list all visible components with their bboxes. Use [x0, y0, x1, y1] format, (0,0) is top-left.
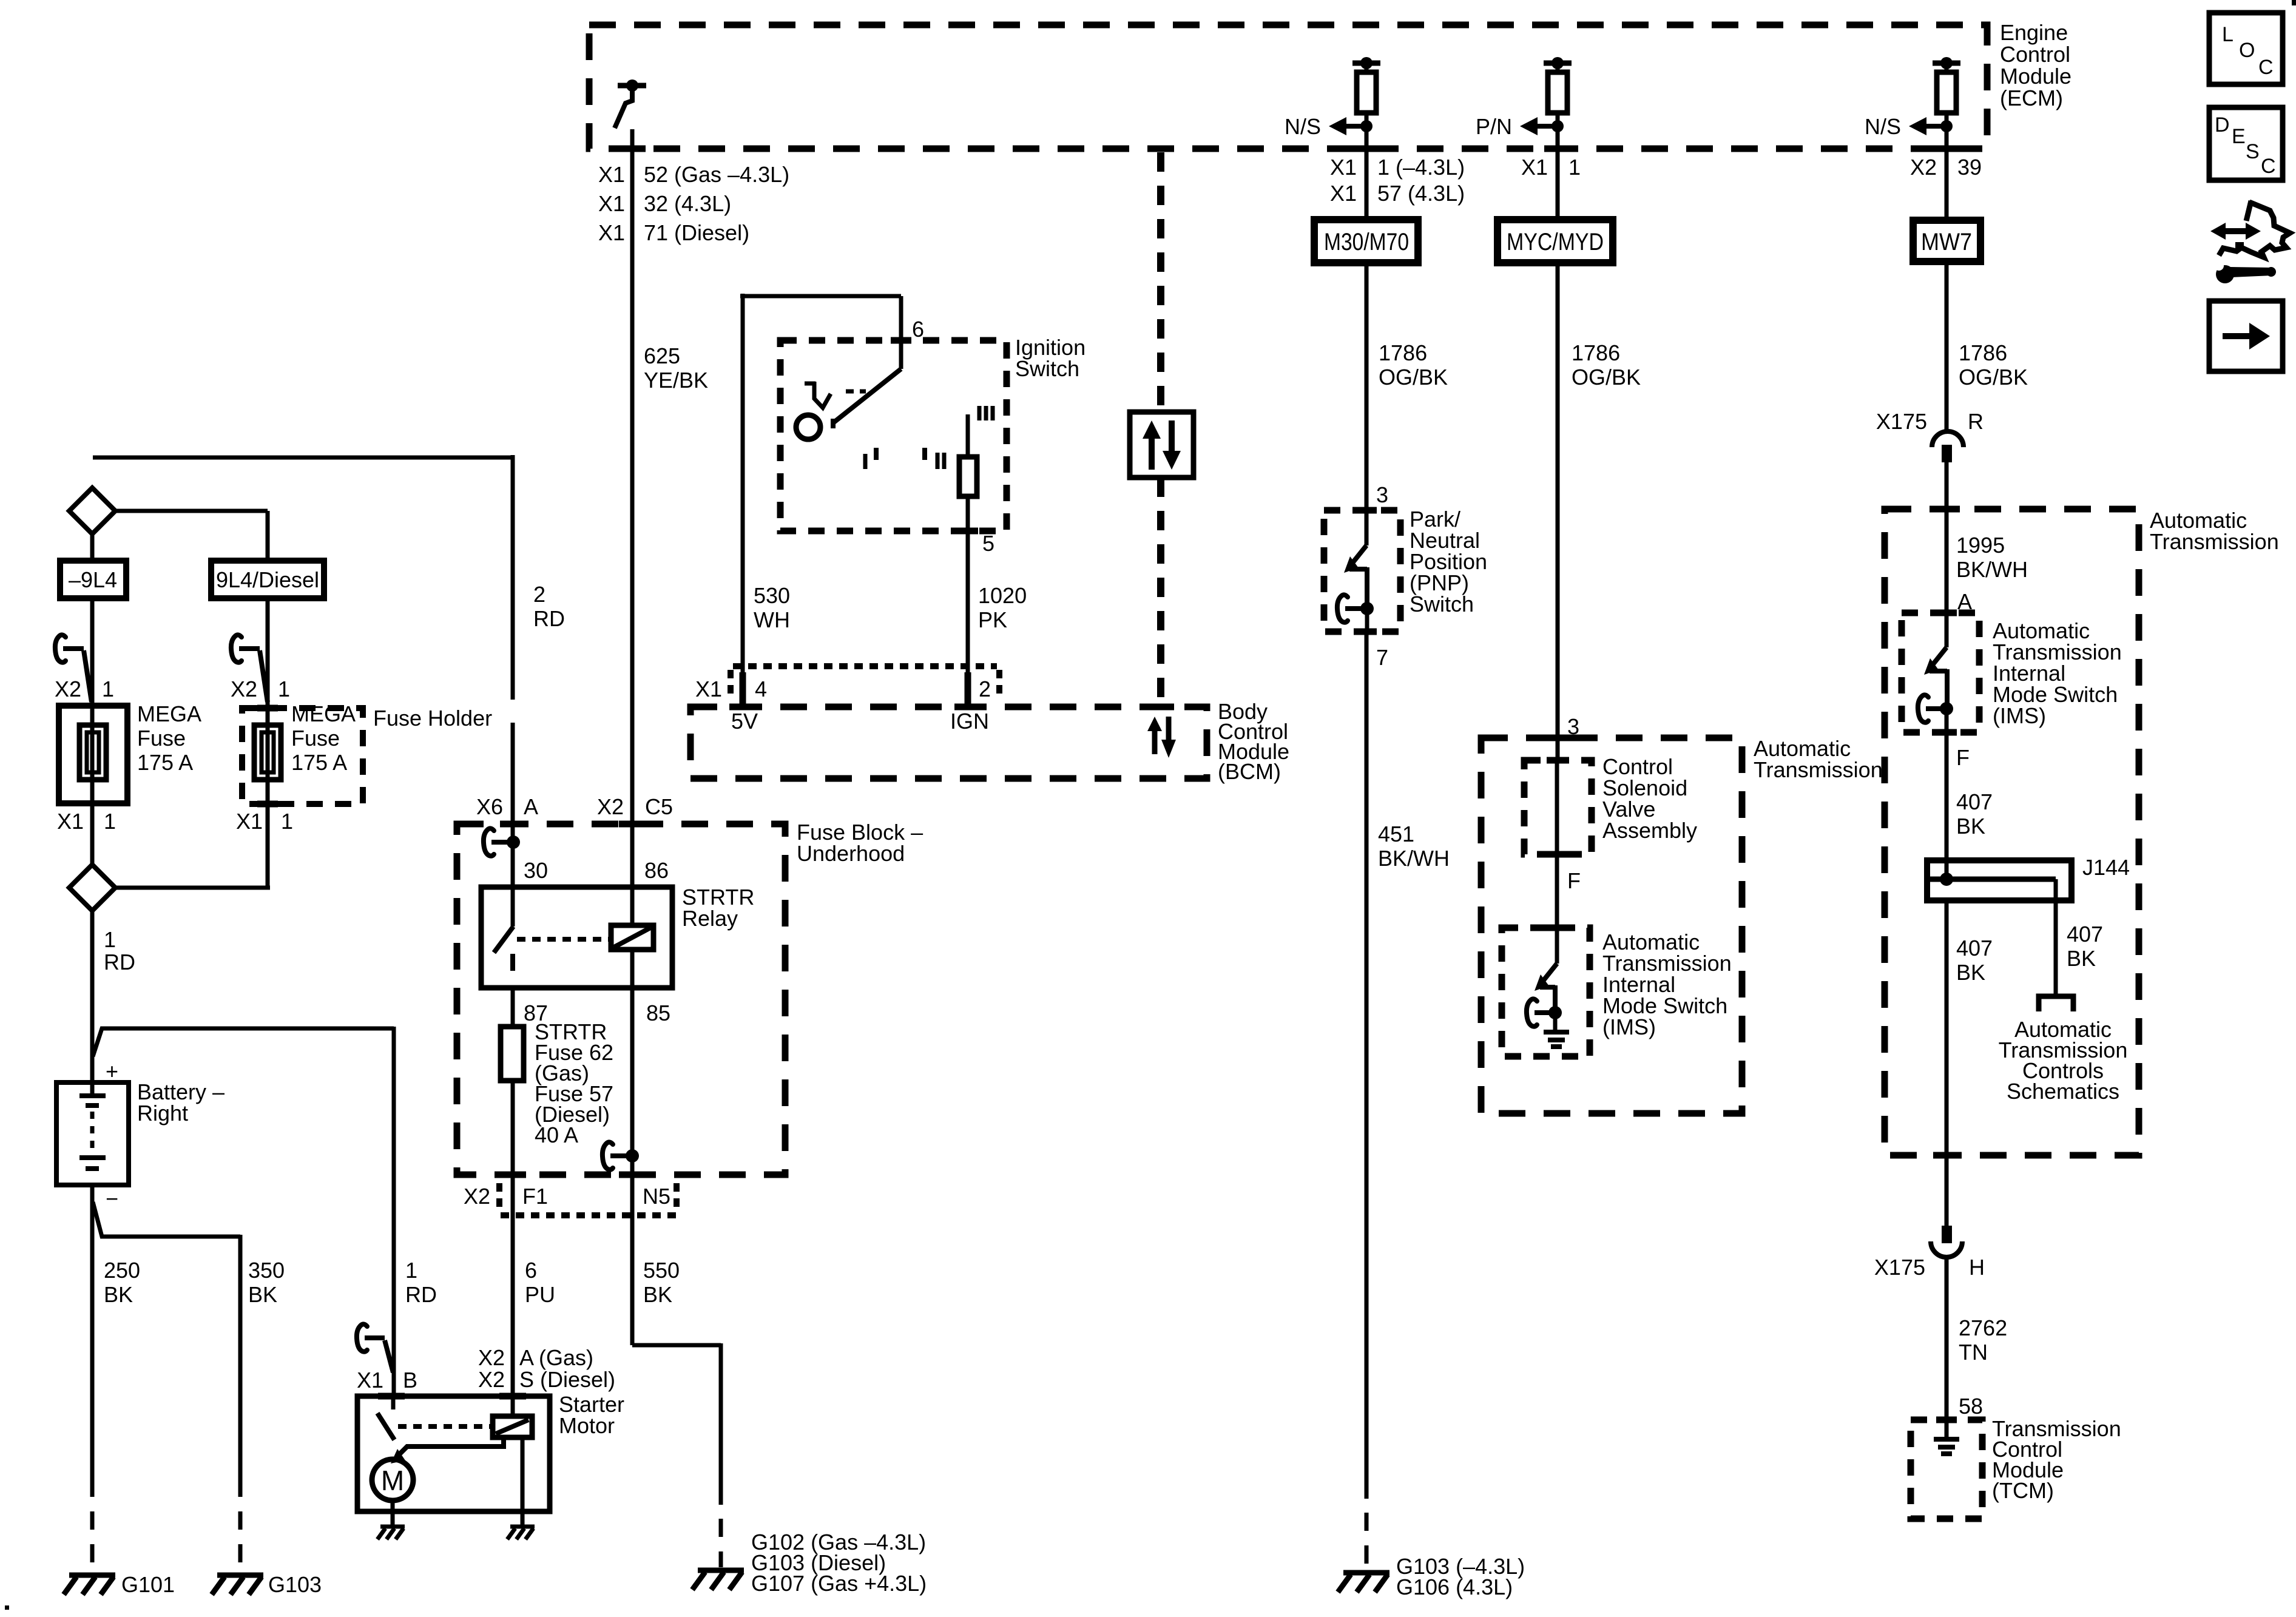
wire: -9L4 down through MEGA fuse to bottom diamond — [90, 598, 95, 865]
wire: into MYC/MYD — [1556, 149, 1560, 220]
svg-text:3: 3 — [1376, 482, 1388, 507]
splice pack J144 — [1927, 860, 2071, 900]
wire: battery feed top horizontal 2 RD — [93, 456, 513, 460]
wire: coil return to ground — [521, 1437, 525, 1525]
svg-text:BK: BK — [104, 1282, 133, 1307]
svg-text:175 A: 175 A — [137, 750, 193, 775]
wire: 2 RD vertical drop to fuse block (with drawn gap) — [511, 455, 515, 887]
wire: 1020 PK pin 5 down to BCM — [966, 496, 970, 707]
TCM dashed box Transmission Control Module — [1911, 1420, 1982, 1519]
svg-text:X1: X1 — [236, 809, 263, 834]
svg-text:Engine: Engine — [2000, 20, 2068, 45]
svg-text:530: 530 — [754, 583, 790, 608]
svg-text:Transmission: Transmission — [1754, 757, 1883, 782]
svg-text:Fuse: Fuse — [137, 726, 186, 751]
svg-text:X2: X2 — [597, 794, 624, 819]
svg-text:5V: 5V — [731, 709, 758, 734]
svg-text:9L4/Diesel: 9L4/Diesel — [216, 567, 319, 592]
svg-text:Switch: Switch — [1015, 356, 1079, 381]
ignition switch dashed box — [780, 340, 1007, 531]
svg-text:58: 58 — [1959, 1394, 1983, 1419]
svg-text:1020: 1020 — [978, 583, 1027, 608]
svg-text:X6: X6 — [476, 794, 503, 819]
svg-text:X2: X2 — [231, 677, 257, 701]
svg-text:BK: BK — [1956, 960, 1985, 985]
svg-text:RD: RD — [405, 1282, 437, 1307]
ignition internal resistor on START feed — [966, 414, 970, 457]
position mark I — [863, 454, 868, 469]
automatic transmission dashed box (middle) — [1481, 738, 1742, 1113]
edge crossing dashes at dashed-box borders — [619, 146, 1960, 152]
wire: J144 down through AT box — [1945, 900, 1949, 1226]
svg-text:BK/WH: BK/WH — [1956, 557, 2028, 582]
svg-text:BK: BK — [2067, 946, 2096, 971]
svg-text:−: − — [106, 1186, 118, 1211]
wire: PNP pin 7 down to ground — [1366, 609, 1367, 1499]
svg-text:(TCM): (TCM) — [1992, 1478, 2054, 1503]
svg-text:71 (Diesel): 71 (Diesel) — [644, 220, 749, 245]
svg-text:BK: BK — [643, 1282, 672, 1307]
wire: dashed link arrow box to BCM — [1157, 478, 1164, 707]
PNP switch dashed box — [1324, 510, 1400, 632]
wire: into MW7 — [1945, 149, 1949, 220]
wire: battery positive branch to starter 1 RD — [93, 1027, 394, 1396]
svg-text:86: 86 — [644, 858, 669, 883]
svg-text:RD: RD — [533, 606, 565, 631]
svg-text:TN: TN — [1959, 1340, 1988, 1365]
ECM driver resistor (MW7 output) — [1933, 61, 1960, 66]
svg-text:J144: J144 — [2082, 855, 2130, 880]
svg-text:–9L4: –9L4 — [69, 567, 117, 592]
earth ground (middle IMS) — [1544, 1032, 1569, 1047]
svg-text:X2: X2 — [478, 1345, 505, 1370]
MEGA fuse 175A left: housing — [59, 706, 127, 803]
svg-text:N/S: N/S — [1865, 114, 1901, 139]
svg-text:MEGA: MEGA — [291, 701, 356, 726]
P/N sense arrow (MYC/MYD) — [1551, 120, 1564, 132]
wire: X175 R into automatic transmission — [1945, 462, 1949, 647]
ground G103 — [212, 1575, 263, 1595]
wire: 350 BK dashed lead to G103 — [238, 1511, 243, 1573]
svg-text:7: 7 — [1376, 645, 1388, 670]
svg-text:X1: X1 — [357, 1368, 383, 1393]
ECM internal switch (starter enable) — [618, 83, 646, 89]
svg-text:X1: X1 — [1330, 181, 1357, 206]
svg-text:85: 85 — [646, 1001, 670, 1025]
position mark II — [922, 448, 927, 460]
in-line connector X175 pin H — [1942, 1226, 1952, 1243]
ECM dashed box Engine Control Module — [589, 25, 1987, 149]
fuse holder dashed box — [242, 708, 363, 804]
MEGA fuse 175A right: fuse element — [254, 725, 281, 780]
wire: battery negative down 250 BK — [90, 1185, 95, 1497]
wire: IMS to earth ground (middle) — [1553, 1013, 1558, 1030]
IMS dashed box (right) — [1902, 613, 1979, 732]
svg-text:30: 30 — [524, 858, 548, 883]
svg-text:350: 350 — [248, 1258, 285, 1283]
starter solenoid contact arm — [391, 1396, 396, 1409]
STRTR fuse element — [501, 1027, 524, 1081]
svg-text:550: 550 — [643, 1258, 680, 1283]
svg-text:Assembly: Assembly — [1602, 818, 1697, 843]
svg-text:Module: Module — [2000, 64, 2071, 89]
connector box -9L4 — [60, 561, 126, 598]
clip at PNP common — [1337, 595, 1348, 622]
svg-text:BK: BK — [248, 1282, 277, 1307]
svg-text:S: S — [2246, 140, 2260, 163]
icon LOC box — [2209, 13, 2283, 84]
svg-text:X2: X2 — [478, 1367, 505, 1392]
wire: diamond to 9L4/Diesel branch — [115, 511, 268, 561]
wire: IMS F down to J144 — [1945, 709, 1949, 879]
svg-text:A (Gas): A (Gas) — [519, 1345, 593, 1370]
off-page connector bracket — [2039, 996, 2073, 1011]
corner mark top right — [2292, 0, 2296, 5]
svg-text:X1: X1 — [1330, 155, 1357, 180]
IMS switch arm (middle) — [1542, 964, 1557, 982]
N/S sense arrow (M30/M70) — [1360, 120, 1373, 132]
wire: 1 RD diamond to battery — [90, 911, 95, 1096]
starter actuator dashed line — [398, 1424, 491, 1429]
wire stubs into BCM — [743, 672, 968, 705]
wire: dashed link ECM to BCM — [1157, 152, 1164, 412]
relay contact arm pin 30-87 — [511, 887, 515, 927]
svg-text:52 (Gas –4.3L): 52 (Gas –4.3L) — [644, 162, 789, 187]
svg-text:451: 451 — [1378, 822, 1414, 846]
svg-text:G101: G101 — [121, 1572, 175, 1597]
wire: dashed lead to G103/G106 — [1365, 1513, 1369, 1570]
svg-text:F1: F1 — [522, 1184, 548, 1209]
svg-text:Underhood: Underhood — [797, 841, 905, 866]
icon forward arrow box — [2209, 301, 2283, 371]
BCM data arrows — [1152, 731, 1158, 754]
wire: relay pin 85 to N5 — [630, 988, 635, 1345]
wire: battery negative branch 350 BK — [93, 1202, 240, 1497]
wire: TCM pin to earth ground — [1945, 1420, 1949, 1437]
wire: diamond down to -9L4 box — [90, 534, 95, 561]
ECM driver resistor (M30/M70 output) — [1352, 61, 1380, 66]
svg-text:39: 39 — [1957, 155, 1982, 180]
svg-text:BK: BK — [1956, 814, 1985, 839]
svg-text:1786: 1786 — [1959, 340, 2007, 365]
node: splice diamond top — [69, 488, 115, 534]
clip at IMS common (middle) — [1527, 999, 1537, 1026]
wire: MW7 down to X175 R — [1945, 262, 1949, 430]
svg-text:X2: X2 — [1910, 155, 1937, 180]
svg-text:250: 250 — [104, 1258, 140, 1283]
svg-text:+: + — [106, 1059, 118, 1084]
clip at relay pin 30 — [484, 828, 494, 856]
svg-text:Right: Right — [137, 1101, 188, 1126]
wire: X175 H to TCM — [1945, 1257, 1949, 1420]
wire: 550 BK to ground G102 — [632, 1343, 721, 1505]
svg-text:407: 407 — [1956, 789, 1993, 814]
svg-text:57 (4.3L): 57 (4.3L) — [1377, 181, 1465, 206]
MEGA fuse 175A left: fuse element — [79, 725, 106, 780]
PNP switch arm — [1365, 510, 1369, 545]
wire: ignition switch box top — [740, 294, 901, 299]
svg-text:(ECM): (ECM) — [2000, 86, 2063, 110]
svg-text:B: B — [403, 1368, 417, 1393]
svg-text:1786: 1786 — [1572, 340, 1620, 365]
wire: motor to ground — [391, 1501, 395, 1525]
svg-text:Schematics: Schematics — [2007, 1079, 2119, 1104]
svg-text:G103: G103 — [268, 1572, 322, 1597]
motor M — [372, 1459, 413, 1501]
BCM connector strip — [733, 663, 997, 669]
svg-text:1: 1 — [102, 677, 114, 701]
wire: pin 87 to STRTR fuse — [511, 988, 515, 1027]
wire: ignition switch pin 6 — [899, 296, 903, 369]
svg-text:1: 1 — [405, 1258, 417, 1283]
data link arrow box — [1130, 412, 1194, 478]
svg-text:L: L — [2222, 23, 2234, 46]
svg-text:(BCM): (BCM) — [1218, 759, 1281, 784]
page period mark — [5, 1605, 9, 1610]
svg-text:C: C — [2261, 155, 2276, 178]
svg-text:N/S: N/S — [1285, 114, 1321, 139]
BCM dashed box Body Control Module — [690, 707, 1207, 778]
IMS switch arm (right) — [1932, 647, 1947, 666]
svg-text:Fuse: Fuse — [291, 726, 340, 751]
svg-text:1: 1 — [104, 809, 116, 834]
svg-text:RD: RD — [104, 950, 135, 974]
position mark III — [979, 406, 993, 420]
ground G102/G103/G107 — [692, 1570, 744, 1590]
svg-text:1: 1 — [104, 927, 116, 952]
starter motor box — [357, 1396, 550, 1511]
svg-text:X1: X1 — [695, 677, 722, 701]
svg-text:C5: C5 — [645, 794, 673, 819]
svg-text:1786: 1786 — [1379, 340, 1427, 365]
svg-text:6: 6 — [912, 317, 924, 342]
wire: fuse to F1 and starter — [511, 1081, 515, 1396]
svg-text:PK: PK — [978, 607, 1007, 632]
svg-text:C: C — [2258, 56, 2274, 79]
svg-text:OG/BK: OG/BK — [1959, 365, 2028, 390]
N/S sense arrow (MW7) — [1940, 120, 1953, 132]
svg-text:Control: Control — [2000, 42, 2070, 67]
svg-text:N5: N5 — [643, 1184, 670, 1209]
svg-text:X1: X1 — [1521, 155, 1548, 180]
svg-text:X175: X175 — [1876, 409, 1927, 434]
svg-text:S (Diesel): S (Diesel) — [519, 1367, 615, 1392]
svg-text:6: 6 — [525, 1258, 537, 1283]
svg-text:O: O — [2239, 39, 2255, 62]
fuse block underhood dashed box — [457, 824, 785, 1175]
node: splice diamond bottom — [69, 865, 115, 911]
svg-text:F: F — [1956, 745, 1970, 770]
svg-text:X175: X175 — [1874, 1255, 1925, 1280]
fuse clip at X2-1 left fuse — [55, 635, 66, 662]
wire: into M30/M70 — [1365, 149, 1369, 220]
svg-text:E: E — [2232, 125, 2246, 148]
svg-text:175 A: 175 A — [291, 750, 347, 775]
wire: J144 branch to off-page connector — [2054, 879, 2058, 994]
control solenoid valve assembly dashed box — [1524, 760, 1592, 854]
svg-text:Switch: Switch — [1410, 592, 1474, 616]
clip at starter X1 B — [357, 1324, 367, 1351]
svg-text:X2: X2 — [55, 677, 81, 701]
wire: through CSVA to IMS — [1555, 760, 1559, 964]
svg-text:2: 2 — [979, 677, 991, 701]
svg-text:H: H — [1969, 1255, 1985, 1280]
wire: MYC/MYD down to control solenoid valve assembly — [1556, 263, 1560, 760]
svg-text:(IMS): (IMS) — [1993, 703, 2046, 728]
svg-text:M: M — [381, 1465, 404, 1496]
wire: 9L4/Diesel down through fuse holder — [266, 598, 270, 888]
svg-text:MW7: MW7 — [1921, 229, 1972, 255]
svg-text:YE/BK: YE/BK — [644, 368, 708, 393]
ECM driver resistor (MYC/MYD output) — [1544, 61, 1572, 66]
svg-text:2: 2 — [533, 582, 545, 607]
ignition key symbol — [805, 382, 831, 408]
svg-text:X2: X2 — [464, 1184, 490, 1209]
svg-text:D: D — [2215, 113, 2230, 137]
svg-text:1 (–4.3L): 1 (–4.3L) — [1377, 155, 1465, 180]
automatic transmission dashed box (right) — [1885, 509, 2139, 1155]
STRTR relay box — [481, 887, 672, 988]
connector code box MYC/MYD — [1497, 220, 1613, 263]
svg-text:407: 407 — [2067, 922, 2103, 947]
wire: 250 BK dashed lead to G101 — [90, 1511, 95, 1573]
svg-text:625: 625 — [644, 343, 680, 368]
relay coil — [611, 925, 653, 950]
earth ground (TCM) — [1934, 1439, 1959, 1454]
svg-text:X1: X1 — [598, 191, 625, 216]
wire: coil pins 86/85 — [630, 887, 635, 988]
connector box 9L4/Diesel — [211, 561, 324, 598]
svg-text:2762: 2762 — [1959, 1315, 2007, 1340]
svg-text:R: R — [1968, 409, 1984, 434]
wire: 6 PU into coil — [511, 1396, 515, 1416]
svg-text:Motor: Motor — [559, 1413, 615, 1438]
relay actuator dashed line — [517, 937, 611, 942]
ground G101 — [64, 1575, 115, 1595]
svg-text:PU: PU — [525, 1282, 555, 1307]
svg-text:5: 5 — [982, 531, 994, 556]
svg-text:G107 (Gas +4.3L): G107 (Gas +4.3L) — [751, 1571, 927, 1596]
connector code box MW7 — [1913, 220, 1980, 262]
svg-text:G106 (4.3L): G106 (4.3L) — [1396, 1575, 1513, 1599]
svg-text:Transmission: Transmission — [2150, 529, 2279, 554]
wire: coil to motor feed — [397, 1437, 504, 1457]
svg-text:OG/BK: OG/BK — [1572, 365, 1641, 390]
fuse clip at X2-1 right fuse — [231, 635, 241, 662]
svg-text:Fuse Holder: Fuse Holder — [373, 706, 492, 731]
svg-text:1995: 1995 — [1956, 533, 2005, 558]
IMS dashed box (middle) — [1502, 928, 1590, 1056]
svg-text:X1: X1 — [57, 809, 84, 834]
svg-text:32 (4.3L): 32 (4.3L) — [644, 191, 731, 216]
svg-text:IGN: IGN — [950, 709, 989, 734]
svg-text:1: 1 — [1568, 155, 1581, 180]
svg-text:WH: WH — [754, 607, 790, 632]
clip at IMS common (right) — [1918, 695, 1928, 722]
wire: M30/M70 to PNP switch — [1365, 263, 1369, 510]
battery Battery-Right — [56, 1082, 129, 1185]
svg-text:OG/BK: OG/BK — [1379, 365, 1448, 390]
svg-text:Relay: Relay — [682, 906, 738, 931]
svg-text:MEGA: MEGA — [137, 701, 201, 726]
svg-text:X1: X1 — [598, 220, 625, 245]
ground (starter solenoid) — [507, 1527, 535, 1539]
svg-text:P/N: P/N — [1476, 114, 1512, 139]
svg-text:M30/M70: M30/M70 — [1324, 229, 1409, 255]
ground G103/G106 — [1338, 1573, 1389, 1592]
svg-text:407: 407 — [1956, 936, 1993, 960]
svg-text:1: 1 — [281, 809, 293, 834]
ground (starter motor) — [377, 1527, 405, 1539]
svg-text:BK/WH: BK/WH — [1378, 846, 1450, 871]
connector code box M30/M70 — [1314, 220, 1418, 263]
starter solenoid coil — [493, 1416, 532, 1437]
svg-text:1: 1 — [278, 677, 290, 701]
svg-text:4: 4 — [755, 677, 767, 701]
ignition switch lever and pivot — [833, 369, 901, 428]
wire: 530 WH ignition feed from BCM 5V — [741, 294, 745, 707]
svg-text:(IMS): (IMS) — [1602, 1014, 1656, 1039]
svg-text:40 A: 40 A — [535, 1122, 578, 1147]
svg-text:A: A — [524, 794, 538, 819]
svg-text:X1: X1 — [598, 162, 625, 187]
clip at N5 — [603, 1142, 613, 1169]
svg-text:F: F — [1567, 868, 1581, 893]
icon vehicle service (arrow, outline, wrench) — [2246, 201, 2251, 221]
wire: 625 YE/BK from ECM to fuse block C5 — [630, 129, 635, 887]
wire: rejoin horizontal at bottom diamond — [115, 886, 270, 890]
svg-text:MYC/MYD: MYC/MYD — [1507, 229, 1604, 255]
icon DESC box — [2209, 107, 2283, 180]
